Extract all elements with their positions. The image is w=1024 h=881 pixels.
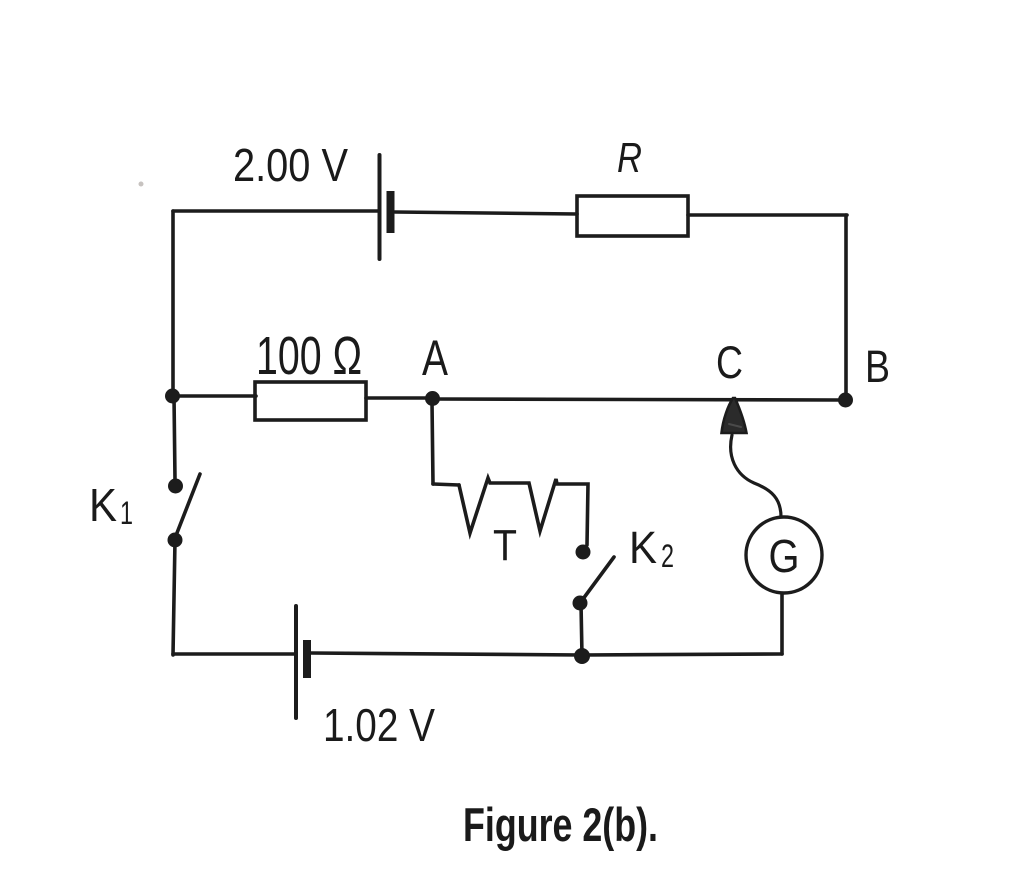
- battery 1.02 V (long plate): [294, 606, 298, 718]
- svg-text:1.02 V: 1.02 V: [323, 699, 435, 751]
- thermocouple T zigzag: [459, 478, 588, 545]
- node junction left dot: [165, 389, 180, 404]
- switch K2 lower contact dot: [573, 596, 588, 611]
- switch K2 blade: [583, 557, 614, 599]
- wire top-left horizontal: [173, 209, 378, 213]
- node A: [425, 391, 440, 406]
- svg-text:R: R: [617, 134, 642, 181]
- switch K2 upper contact dot: [576, 545, 591, 560]
- svg-text:K: K: [629, 522, 657, 573]
- resistor R: [577, 196, 688, 236]
- svg-text:G: G: [769, 530, 800, 582]
- wire resistor R to top-right corner: [688, 213, 847, 217]
- wire riser to galvanometer: [780, 593, 784, 654]
- wire K2 down to bottom junction: [581, 603, 582, 656]
- svg-text:B: B: [865, 341, 890, 392]
- wire short horizontal into thermocouple: [433, 484, 459, 485]
- wire right vertical: [844, 215, 848, 396]
- switch K1 lower contact dot: [168, 533, 183, 548]
- wire bottom middle: [311, 653, 582, 655]
- svg-text:1: 1: [120, 495, 133, 531]
- svg-text:C: C: [716, 337, 743, 388]
- faint scan speck: [139, 182, 144, 187]
- svg-text:2.00 V: 2.00 V: [233, 139, 348, 191]
- wire left node down to switch K1: [174, 396, 175, 480]
- svg-text:K: K: [89, 479, 117, 531]
- wire node A down: [432, 402, 433, 484]
- battery 1.02 V (short thick plate): [303, 640, 311, 678]
- switch K1 blade: [175, 474, 200, 538]
- wire left vertical (top to middle node): [171, 211, 175, 396]
- wire top-right horizontal (battery to resistor R): [395, 212, 577, 214]
- svg-text:Figure 2(b).: Figure 2(b).: [463, 798, 658, 851]
- switch K1 upper contact dot: [168, 479, 183, 494]
- svg-text:T: T: [493, 521, 517, 570]
- wire curvy galvanometer to C: [731, 435, 781, 517]
- svg-text:A: A: [422, 330, 448, 386]
- svg-text:2: 2: [661, 538, 674, 574]
- galvanometer G: [746, 517, 822, 593]
- battery 2.00 V (long plate): [378, 155, 382, 259]
- wire bottom right: [582, 654, 782, 655]
- wire K1 down to bottom-left corner: [173, 540, 175, 655]
- wire middle left (node to 100 ohm): [173, 394, 256, 398]
- wire bottom-left horizontal: [173, 652, 294, 656]
- resistor 100 ohm: [255, 382, 366, 420]
- node B: [838, 393, 853, 408]
- junction dot bottom (K2 branch): [574, 648, 590, 664]
- wire 100 ohm to node A: [366, 396, 432, 400]
- battery 2.00 V (short thick plate): [387, 191, 395, 233]
- arrow head at C: [722, 398, 747, 433]
- wire middle A to B: [432, 399, 840, 400]
- svg-text:100 Ω: 100 Ω: [256, 326, 362, 386]
